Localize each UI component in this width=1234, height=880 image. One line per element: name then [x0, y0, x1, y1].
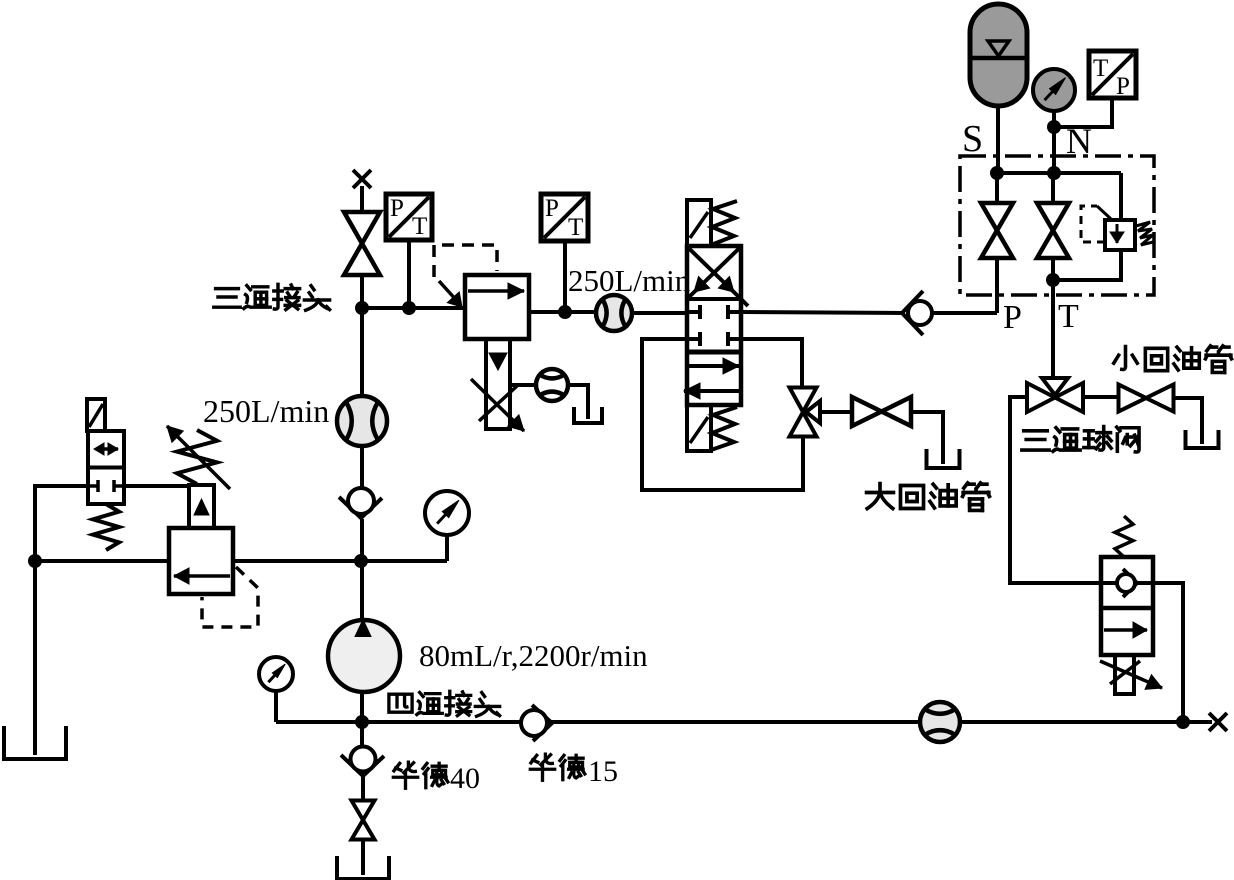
- T/P transducer box: [1089, 51, 1136, 98]
- P/T transducer box 2: [541, 194, 588, 241]
- check valve CVP: [902, 291, 923, 335]
- svg-text:T: T: [1058, 298, 1079, 335]
- tank T5 far left: [33, 561, 37, 755]
- wire B1 side port to valve: [820, 410, 852, 414]
- prop valve X cell arrows: [687, 247, 741, 300]
- wire valve V1 to tee junction: [360, 275, 364, 310]
- node P/T 2 stem junction: [558, 305, 572, 319]
- manifold dash-dot enclosure: [960, 156, 1154, 295]
- node left junction: [28, 554, 42, 568]
- wire relief valve to pump junction: [233, 559, 361, 563]
- prop valve center cell port marks: [687, 310, 700, 314]
- FC1 throttle cross: [479, 386, 517, 421]
- wire bottom junction to gauge G2: [276, 720, 362, 724]
- SQ throttle cross arrow: [1110, 661, 1140, 684]
- wire gauge G1 stem: [445, 535, 449, 561]
- wire SQ outlet to bottom line: [1153, 583, 1183, 722]
- wire FC1 to flow meter 2: [510, 383, 536, 387]
- svg-text:P: P: [390, 195, 404, 222]
- solenoid pilot box of valve V3: [87, 399, 105, 431]
- wire P/T box 2 stem: [563, 241, 567, 312]
- node four-way junction: [355, 715, 369, 729]
- wire gauge G2 stem: [274, 691, 278, 722]
- node bottom-right junction: [1176, 715, 1190, 729]
- wire T/P box to N line: [1054, 98, 1112, 127]
- shutoff valve V1 on line A: [344, 212, 380, 244]
- wire check valve to pump junction: [360, 519, 364, 561]
- shutoff valve VS on S line: [981, 203, 1013, 231]
- svg-text:T: T: [412, 213, 427, 240]
- wire P/T box 1 stem: [407, 240, 411, 308]
- prop valve main body: [687, 246, 741, 405]
- wire prop valve left port loop: [642, 339, 803, 490]
- wire X to shutoff valve: [360, 186, 364, 213]
- label 三通球阀: [1022, 431, 1049, 450]
- prop valve bottom spring: [711, 407, 737, 450]
- P/T transducer box 1: [386, 194, 432, 240]
- spring below valve V3: [93, 504, 119, 550]
- sequence valve SQ spring: [1115, 516, 1133, 557]
- three-way ball valve B1: [790, 388, 817, 413]
- SQ arrow cell: [1104, 628, 1147, 632]
- shutoff valve V5 small return: [1119, 385, 1147, 412]
- SQ check valve cell: [1123, 569, 1137, 597]
- node tee junction on line A: [355, 301, 369, 315]
- wire valve V3 left port: [35, 486, 88, 561]
- label 三通接头: [214, 289, 240, 308]
- pressure gauge G1: [425, 491, 469, 535]
- shutoff valve VN on N line: [1037, 203, 1069, 231]
- tank T1 bottom center: [361, 840, 365, 875]
- tank T3 small return: [1200, 398, 1204, 444]
- flow meter 3: [596, 295, 632, 331]
- wire flow meter 1 to check valve: [360, 446, 364, 490]
- node P/T stem junction: [402, 301, 416, 315]
- label 华德15: [530, 754, 554, 780]
- shutoff valve V4 big return: [852, 397, 882, 426]
- flow meter 1 250L/min: [337, 396, 387, 446]
- label 小回油管: [1114, 346, 1138, 369]
- svg-text:80mL/r,2200r/min: 80mL/r,2200r/min: [419, 638, 648, 673]
- node N junction with T/P: [1047, 120, 1061, 134]
- svg-text:250L/min: 250L/min: [203, 393, 329, 429]
- svg-text:250L/min: 250L/min: [568, 263, 691, 298]
- wire accumulator S line: [996, 106, 1000, 173]
- wire down to check valve 华德40: [360, 722, 364, 748]
- wire junction to gauge stem: [361, 559, 447, 563]
- three-way ball valve B2: [1042, 378, 1068, 395]
- valve V3 arrows cell: [96, 447, 118, 451]
- shutoff valve V2 bottom: [352, 801, 375, 821]
- check valve 华德15: [532, 705, 552, 741]
- label 华德40: [393, 762, 417, 788]
- wire flow meter 3 to main valve: [632, 311, 688, 315]
- pump 80mL/r: [328, 620, 400, 692]
- prop valve solenoid cap top: [687, 200, 711, 246]
- prop valve solenoid cap bottom: [687, 405, 711, 451]
- wire S line through manifold: [995, 173, 999, 203]
- wire check valve CVP to P port: [932, 311, 997, 315]
- label 大回油管: [867, 484, 894, 509]
- relief valve RV2 box: [1105, 220, 1135, 250]
- pressure gauge G2: [259, 657, 293, 691]
- wire manifold top header: [997, 171, 1121, 175]
- wire left junction to relief valve: [35, 559, 169, 563]
- wire main line FC1 to P/T 2: [529, 310, 597, 314]
- wire V4 to tank T4: [911, 412, 943, 448]
- wire N line through manifold: [1051, 173, 1055, 203]
- wire B2 right port: [1083, 395, 1118, 399]
- wire check to small shutoff: [361, 777, 365, 801]
- svg-text:P: P: [545, 195, 559, 222]
- svg-text:S: S: [962, 118, 983, 160]
- valve V3 closed cell port marks: [88, 484, 98, 488]
- label 四通接头: [389, 694, 412, 712]
- wire tee to P/T transducer stem: [362, 306, 465, 310]
- wire valve V3 right port to pilot: [124, 484, 190, 488]
- flow meter 4 bottom: [920, 702, 960, 742]
- wire prop valve right port: [741, 339, 802, 388]
- plug X bottom right: [1209, 713, 1227, 731]
- wire V5 to tank T3: [1173, 398, 1202, 442]
- tank T4 big return: [941, 412, 945, 464]
- flow meter 2 small: [536, 369, 568, 401]
- flow control valve FC1 box: [465, 275, 529, 339]
- svg-text:T: T: [568, 214, 583, 241]
- svg-text:P: P: [1116, 73, 1130, 100]
- relief valve drain dashed pilot: [202, 567, 258, 627]
- node N manifold junction: [1047, 166, 1061, 180]
- SQ throttle stub: [1115, 655, 1134, 694]
- FC1 dashed pilot line: [434, 245, 497, 277]
- node S manifold junction: [990, 166, 1004, 180]
- relief valve internal arrow: [174, 574, 230, 578]
- check valve 华德40: [341, 755, 384, 776]
- accumulator: [970, 4, 1027, 106]
- adjustable spring of relief valve: [177, 430, 217, 484]
- wire header down to relief RV2: [1119, 173, 1123, 220]
- pressure gauge G3: [1033, 69, 1075, 111]
- wire gauge G3 stem N line: [1052, 111, 1056, 173]
- wire B2 left port down: [1010, 397, 1101, 583]
- 2/2 solenoid valve V3 body: [88, 431, 124, 504]
- relief valve RV2 dashed pilot: [1081, 206, 1105, 242]
- FC1 internal arrow: [468, 289, 524, 293]
- wire pump to bottom junction: [360, 690, 364, 722]
- wire junction down to pump: [360, 561, 364, 623]
- svg-text:40: 40: [450, 762, 480, 795]
- plug X top of line A: [353, 170, 371, 188]
- tank T2: [586, 385, 590, 419]
- FC1 reducer narrow box: [486, 339, 510, 429]
- sequence valve SQ box: [1101, 557, 1153, 655]
- check valve on line A: [339, 497, 382, 518]
- wire flow meter 2 to tank T2: [568, 385, 588, 407]
- wire tee down to flow meter 1: [360, 308, 364, 398]
- wire RV2 to T line: [1053, 250, 1121, 280]
- node pump-top junction: [354, 554, 368, 568]
- relief valve RV2 spring: [1136, 222, 1153, 245]
- relief valve main box: [169, 528, 233, 594]
- pilot box with up triangle: [189, 485, 214, 528]
- prop valve top spring: [711, 201, 737, 245]
- node T line junction: [1046, 273, 1060, 287]
- wire through SQ check cell: [1101, 581, 1117, 585]
- wire junction to end plug: [1183, 720, 1212, 724]
- svg-text:15: 15: [588, 755, 618, 788]
- svg-text:P: P: [1003, 299, 1022, 336]
- FC1 down triangle: [489, 353, 507, 370]
- wire main line to check valve CVP: [741, 312, 904, 313]
- prop valve parallel arrows cell: [688, 364, 739, 368]
- wire bottom long line: [362, 720, 1183, 724]
- svg-text:T: T: [1093, 55, 1108, 82]
